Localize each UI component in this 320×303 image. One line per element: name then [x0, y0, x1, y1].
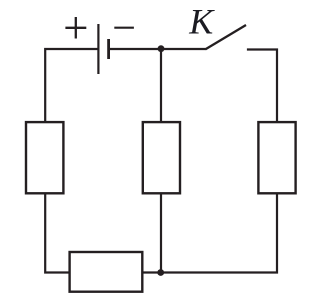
node B junction dot: [157, 269, 164, 276]
battery B1 long positive plate: [97, 24, 99, 74]
wire: R1 bottom to bottom-left corner, right to R4 left: [45, 194, 69, 273]
wire: switch right contact to top-right corner, down to R3 top: [247, 50, 277, 123]
battery minus polarity mark: [114, 27, 134, 29]
svg-text:K: K: [188, 2, 215, 42]
resistor R1 (left branch): [26, 122, 63, 193]
wire: battery + plate left to top-left corner, down to R1 top: [45, 49, 98, 122]
wire: R2 bottom down to node B: [160, 194, 162, 273]
wire: battery - plate through node A to switch pivot: [109, 48, 206, 50]
wire: R4 right side through node B to bottom-right corner, up to R3 bottom: [143, 194, 278, 273]
battery B1 short negative plate: [107, 39, 110, 59]
resistor R2 (middle branch): [143, 122, 180, 193]
switch K open lever: [205, 25, 246, 49]
wire: node A down to R2 top: [160, 49, 162, 122]
battery plus polarity mark: [65, 17, 86, 39]
node A junction dot: [158, 45, 165, 52]
resistor R4 (bottom): [70, 252, 143, 292]
resistor R3 (right branch): [258, 122, 295, 193]
